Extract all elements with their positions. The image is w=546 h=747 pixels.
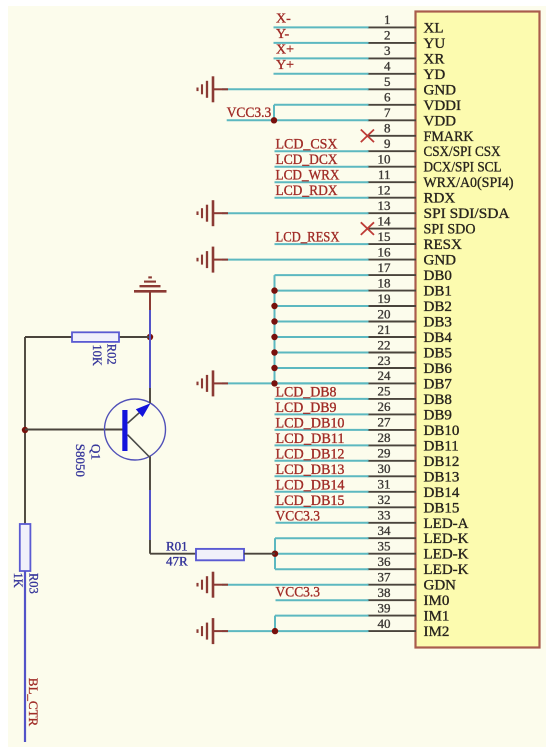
svg-text:R01: R01 [166,539,188,554]
svg-text:DB8: DB8 [424,392,452,408]
svg-text:10: 10 [378,152,391,167]
svg-text:VCC3.3: VCC3.3 [227,105,272,121]
svg-text:DB6: DB6 [424,361,453,377]
svg-text:19: 19 [378,291,391,306]
svg-text:DB14: DB14 [424,485,460,501]
svg-text:VDD: VDD [424,113,457,129]
svg-text:29: 29 [378,446,391,461]
svg-text:27: 27 [378,415,392,430]
svg-text:LED-K: LED-K [424,531,469,547]
svg-text:31: 31 [378,477,391,492]
svg-text:22: 22 [378,337,391,352]
svg-text:FMARK: FMARK [424,129,474,145]
svg-text:XR: XR [424,51,445,67]
svg-text:14: 14 [378,213,392,228]
svg-text:Y+: Y+ [276,58,294,73]
svg-text:DB5: DB5 [424,346,452,362]
svg-text:39: 39 [378,600,391,615]
svg-text:32: 32 [378,492,391,507]
svg-text:24: 24 [378,368,392,383]
svg-text:10K: 10K [90,344,104,366]
svg-text:8: 8 [384,121,391,136]
svg-text:13: 13 [378,198,391,213]
svg-text:DB15: DB15 [424,500,460,516]
svg-text:47R: 47R [166,554,188,569]
svg-text:LCD_DB11: LCD_DB11 [276,431,345,447]
svg-text:LCD_DB12: LCD_DB12 [276,446,345,462]
svg-text:R03: R03 [27,573,41,594]
svg-text:LCD_WRX: LCD_WRX [276,168,340,184]
svg-text:DB2: DB2 [424,299,452,315]
svg-text:DB10: DB10 [424,423,460,439]
svg-text:LCD_DB14: LCD_DB14 [276,477,346,493]
svg-text:VCC3.3: VCC3.3 [276,508,321,524]
svg-text:GDN: GDN [424,578,457,594]
svg-text:LCD_RESX: LCD_RESX [276,230,340,246]
svg-text:XL: XL [424,20,444,36]
svg-text:VCC3.3: VCC3.3 [276,585,321,601]
svg-text:SPI SDO: SPI SDO [424,222,476,238]
svg-text:33: 33 [378,508,391,523]
svg-text:2: 2 [384,28,391,43]
svg-text:DB0: DB0 [424,268,452,284]
svg-text:11: 11 [378,167,391,182]
svg-text:SPI SDI/SDA: SPI SDI/SDA [424,206,510,222]
svg-text:LCD_DB13: LCD_DB13 [276,462,345,478]
svg-text:DB13: DB13 [424,469,460,485]
svg-text:30: 30 [378,461,391,476]
svg-text:4: 4 [384,59,391,74]
svg-text:LCD_DB15: LCD_DB15 [276,493,345,509]
svg-text:3: 3 [384,43,391,58]
svg-text:12: 12 [378,183,391,198]
svg-text:35: 35 [378,539,391,554]
svg-text:R02: R02 [105,344,119,365]
svg-text:23: 23 [378,353,391,368]
svg-text:LED-K: LED-K [424,562,469,578]
svg-text:17: 17 [378,260,392,275]
svg-text:RDX: RDX [424,191,456,207]
svg-text:40: 40 [378,616,391,631]
svg-text:LED-K: LED-K [424,547,469,563]
svg-text:IM0: IM0 [424,593,450,609]
svg-text:RESX: RESX [424,237,463,253]
svg-text:37: 37 [378,570,392,585]
svg-text:1K: 1K [11,573,25,588]
svg-text:5: 5 [384,74,391,89]
svg-text:X+: X+ [276,42,294,57]
svg-text:Q1: Q1 [89,444,104,460]
svg-text:DB11: DB11 [424,438,459,454]
svg-text:34: 34 [378,523,392,538]
svg-text:LCD_DB10: LCD_DB10 [276,415,345,431]
svg-text:YD: YD [424,67,446,83]
svg-text:7: 7 [384,105,391,120]
svg-text:DB3: DB3 [424,315,452,331]
svg-text:9: 9 [384,136,391,151]
svg-text:S8050: S8050 [73,444,88,477]
svg-text:LCD_RDX: LCD_RDX [276,183,338,199]
svg-text:LCD_DB9: LCD_DB9 [276,400,337,416]
svg-text:DB4: DB4 [424,330,453,346]
svg-text:25: 25 [378,384,391,399]
svg-text:28: 28 [378,430,391,445]
svg-text:21: 21 [378,322,391,337]
svg-text:IM2: IM2 [424,624,450,640]
svg-text:LED-A: LED-A [424,516,469,532]
svg-text:Y-: Y- [276,27,290,42]
svg-text:36: 36 [378,554,392,569]
svg-text:VDDI: VDDI [424,98,462,114]
svg-text:GND: GND [424,253,457,269]
svg-text:DB9: DB9 [424,407,452,423]
svg-text:15: 15 [378,229,391,244]
svg-text:38: 38 [378,585,391,600]
svg-text:LCD_DCX: LCD_DCX [276,152,338,168]
svg-text:DCX/SPI SCL: DCX/SPI SCL [424,160,502,176]
svg-text:LCD_CSX: LCD_CSX [276,137,338,153]
svg-text:YU: YU [424,36,446,52]
svg-text:CSX/SPI CSX: CSX/SPI CSX [424,144,501,160]
svg-text:DB12: DB12 [424,454,460,470]
svg-text:X-: X- [276,11,291,26]
svg-text:18: 18 [378,275,391,290]
svg-text:BL_CTR: BL_CTR [26,678,41,727]
svg-text:LCD_DB8: LCD_DB8 [276,384,337,400]
svg-text:DB7: DB7 [424,376,453,392]
svg-text:20: 20 [378,306,391,321]
svg-text:26: 26 [378,399,392,414]
svg-text:6: 6 [384,90,391,105]
svg-text:DB1: DB1 [424,284,452,300]
svg-text:WRX/A0(SPI4): WRX/A0(SPI4) [424,175,514,191]
svg-text:IM1: IM1 [424,609,450,625]
svg-text:16: 16 [378,244,392,259]
svg-text:GND: GND [424,82,457,98]
svg-text:1: 1 [384,12,391,27]
